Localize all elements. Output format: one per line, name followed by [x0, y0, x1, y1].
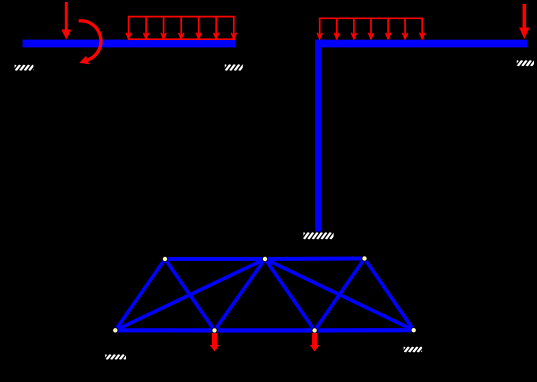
- truss member T2-B3: [265, 259, 315, 330]
- truss member T2-T3 (top chord): [265, 257, 365, 262]
- moment M1 (curved arrow): [79, 21, 101, 65]
- support hatch under bottom of frame column: [300, 232, 340, 239]
- truss member T1-B2: [165, 259, 215, 330]
- support hatch under right end of beam B1: [221, 64, 253, 70]
- truss member B2-B3 (bottom chord): [215, 328, 315, 332]
- point load F4 at truss node B3: [310, 333, 320, 352]
- beam B1 (left simply supported beam): [23, 40, 236, 48]
- frame beam (top-right horizontal member): [315, 40, 527, 48]
- point load F3 at truss node B2: [210, 333, 220, 352]
- support hatch under truss node B1: [102, 354, 132, 359]
- distributed load q1 on beam B1: [126, 17, 236, 40]
- truss node B4: [411, 328, 416, 333]
- support hatch under truss node B4: [400, 347, 430, 352]
- truss member T3-B3: [315, 259, 365, 331]
- truss member B1-T2: [115, 259, 265, 330]
- frame column (vertical member): [315, 40, 321, 232]
- support hatch under left end of beam B1: [11, 65, 42, 71]
- truss member B3-B4 (bottom chord): [315, 328, 414, 332]
- truss member T2-B4: [265, 259, 414, 330]
- truss node T1: [162, 256, 167, 261]
- point load F1 on beam B1: [61, 2, 71, 40]
- truss member T3-B4: [365, 259, 414, 331]
- truss node B2: [212, 328, 217, 333]
- truss node T2: [262, 256, 267, 261]
- truss node T3: [362, 256, 367, 261]
- truss member T1-T2 (top chord): [165, 257, 265, 261]
- truss node B1: [113, 328, 118, 333]
- point load F2 at right end of frame beam: [519, 4, 529, 39]
- truss node B3: [312, 328, 317, 333]
- truss member T2-B2: [215, 259, 266, 330]
- distributed load q2 on frame beam: [317, 18, 425, 38]
- support hatch under right end of frame beam: [513, 60, 537, 66]
- truss member B1-B2 (bottom chord): [115, 328, 214, 332]
- truss member B1-T1: [115, 259, 165, 330]
